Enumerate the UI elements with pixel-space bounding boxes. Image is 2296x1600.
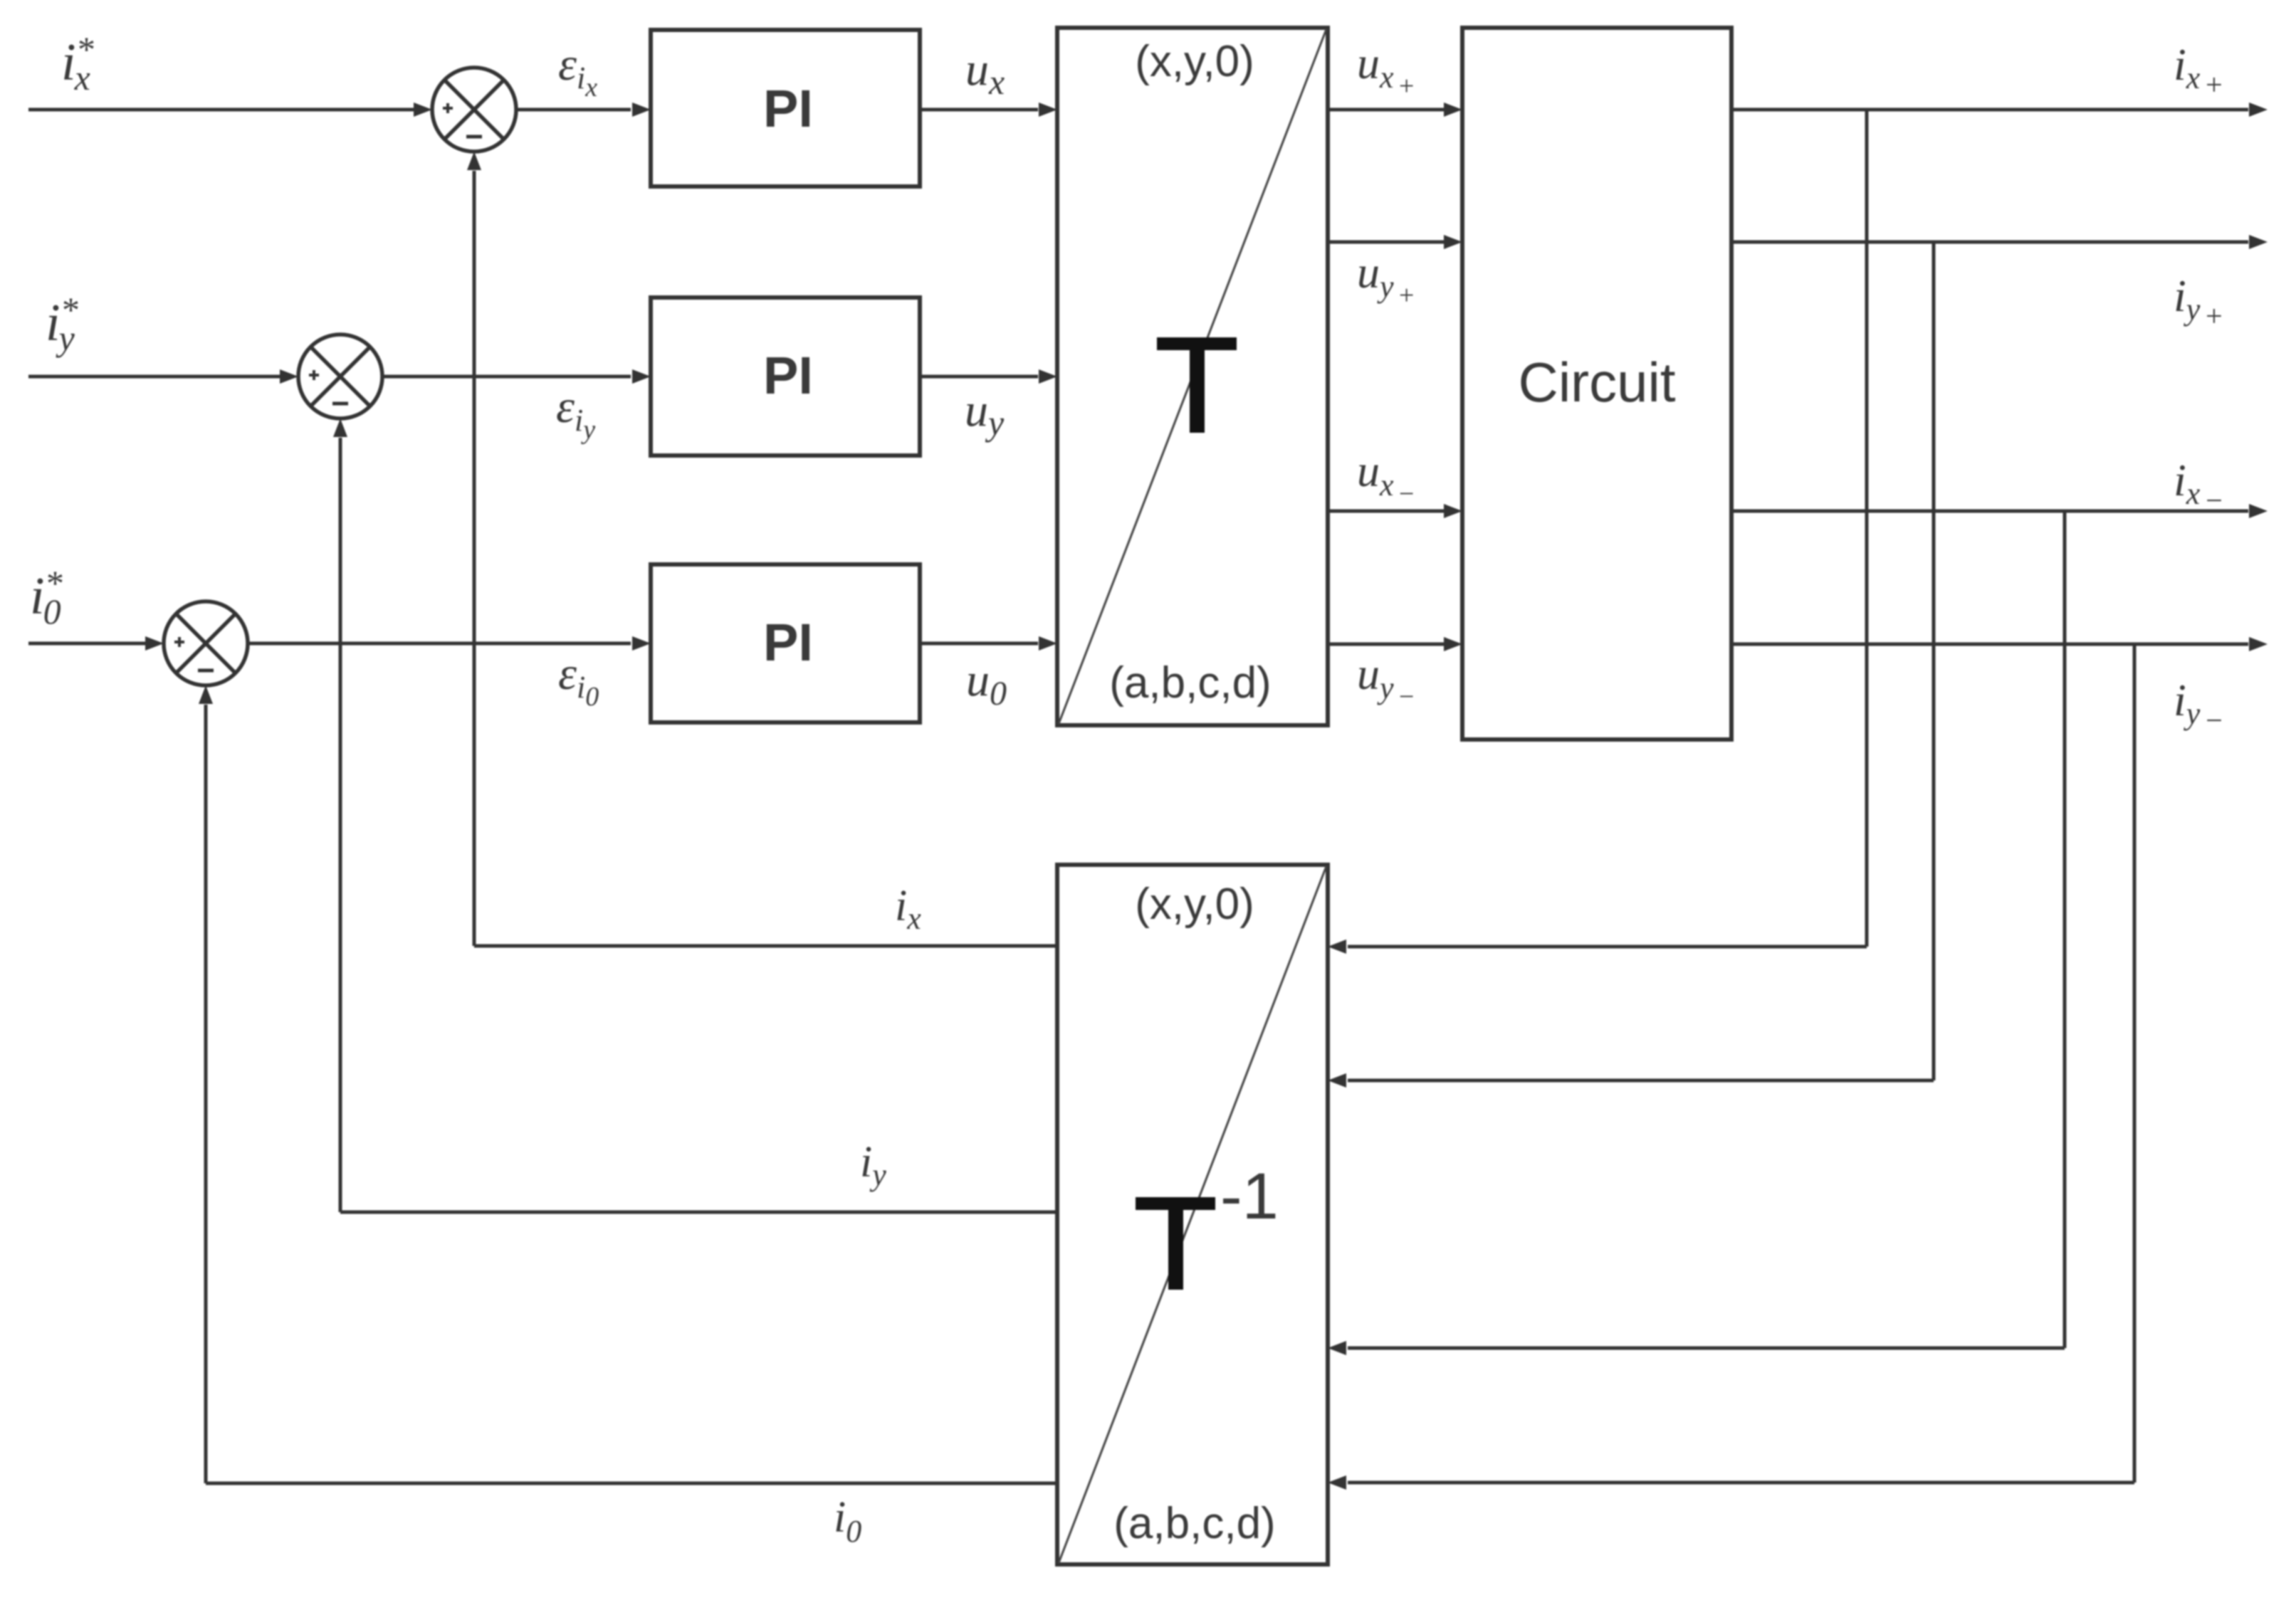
wire i0 feedback vertical to SJ3 [204, 705, 208, 1483]
svg-text:εi0: εi0 [558, 648, 599, 712]
arrowhead feedback iy- into T-inv [1328, 1475, 1346, 1490]
arrowhead output iy+ [2249, 235, 2268, 249]
wire T to Circuit (ux-) [1328, 510, 1444, 513]
wire ix feedback vertical to SJ1 [473, 171, 476, 946]
arrowhead output ix+ [2249, 102, 2268, 117]
wire Circuit output iy- [1731, 643, 2248, 646]
arrowhead feedback into SJ1 bottom [467, 152, 481, 170]
T symbol [1157, 337, 1237, 350]
wire i*x input row1 [28, 108, 416, 112]
svg-text:i*y: i*y [46, 290, 78, 358]
svg-text:εix: εix [558, 38, 597, 102]
svg-text:uy+: uy+ [1357, 247, 1415, 310]
wire feedback tap iy+ vertical [1932, 242, 1936, 1080]
wire PI1 to T (ux) [920, 108, 1038, 112]
svg-text:iy−: iy− [2174, 675, 2224, 737]
svg-text:εiy: εiy [556, 381, 595, 445]
wire T to Circuit (uy-) [1328, 643, 1444, 646]
wire i*0 input row3 [28, 642, 147, 646]
svg-text:ix: ix [895, 882, 921, 936]
arrowhead into PI1 [632, 102, 651, 117]
svg-text:(a,b,c,d): (a,b,c,d) [1109, 658, 1271, 707]
T inverse symbol [1136, 1197, 1215, 1210]
svg-text:PI: PI [763, 613, 813, 672]
svg-text:iy+: iy+ [2174, 270, 2224, 333]
svg-text:(x,y,0): (x,y,0) [1135, 880, 1254, 929]
arrowhead ux into T [1039, 102, 1057, 117]
svg-text:uy−: uy− [1357, 648, 1415, 712]
wire feedback tap ix+ vertical [1865, 110, 1869, 947]
wire SJ1 to PI1 [516, 108, 631, 112]
summing junction SJ1 [432, 68, 516, 152]
arrowhead output ix- [2249, 504, 2268, 518]
svg-text:uy: uy [965, 384, 1005, 443]
arrowhead feedback into SJ2 bottom [333, 419, 347, 437]
svg-text:ix−: ix− [2174, 455, 2224, 517]
arrowhead u0 into T [1039, 636, 1057, 651]
svg-text:ux: ux [965, 43, 1005, 102]
arrowhead feedback ix- into T-inv [1328, 1341, 1346, 1355]
block T transform [1057, 28, 1328, 725]
wire ix feedback horizontal from T-inv [474, 944, 1057, 948]
svg-text:i0: i0 [834, 1493, 861, 1549]
svg-text:PI: PI [763, 346, 813, 405]
wire i*y input row2 [28, 375, 282, 379]
wire i0 feedback horizontal from T-inv [206, 1482, 1057, 1485]
svg-text:i*0: i*0 [30, 563, 63, 631]
wire Circuit output ix- [1731, 510, 2248, 513]
arrowhead feedback iy+ into T-inv [1328, 1073, 1346, 1088]
arrowhead into PI3 [632, 636, 651, 651]
wire SJ2 to PI2 [382, 375, 631, 379]
arrowhead uy- into Circuit [1444, 637, 1462, 651]
svg-text:(x,y,0): (x,y,0) [1135, 37, 1254, 86]
wire feedback ix- horizontal into T-inv [1348, 1347, 2065, 1350]
svg-text:ix+: ix+ [2174, 39, 2224, 102]
block PI1 [651, 30, 920, 186]
arrowhead into SJ3 [145, 636, 164, 651]
block T inverse transform [1057, 865, 1328, 1564]
arrowhead ux+ into Circuit [1444, 102, 1462, 117]
arrowhead output iy- [2249, 637, 2268, 651]
block PI3 [651, 564, 920, 722]
svg-text:(a,b,c,d): (a,b,c,d) [1113, 1499, 1275, 1548]
wire Circuit output ix+ [1731, 108, 2248, 112]
wire T to Circuit (uy+) [1328, 241, 1444, 244]
wire feedback tap iy- vertical [2133, 644, 2137, 1483]
wire feedback iy+ horizontal into T-inv [1348, 1079, 1934, 1083]
svg-text:i*x: i*x [61, 29, 94, 98]
arrowhead ux- into Circuit [1444, 504, 1462, 518]
arrowhead uy into T [1039, 369, 1057, 384]
svg-text:Circuit: Circuit [1518, 351, 1675, 414]
wire feedback ix+ horizontal into T-inv [1348, 945, 1867, 949]
wire Circuit output iy+ [1731, 241, 2248, 244]
wire feedback iy- horizontal into T-inv [1348, 1481, 2134, 1485]
arrowhead into SJ1 [414, 102, 432, 117]
arrowhead into SJ2 [280, 369, 298, 384]
wire SJ3 to PI3 [248, 642, 631, 646]
summing junction SJ2 [298, 335, 382, 419]
svg-text:u0: u0 [966, 654, 1007, 712]
wire iy feedback horizontal from T-inv [340, 1211, 1057, 1214]
wire PI3 to T (u0) [920, 642, 1038, 646]
svg-text:ux−: ux− [1357, 446, 1415, 509]
arrowhead feedback ix+ into T-inv [1328, 940, 1346, 954]
arrowhead uy+ into Circuit [1444, 235, 1462, 249]
svg-text:-1: -1 [1220, 1160, 1279, 1233]
arrowhead feedback into SJ3 bottom [199, 685, 213, 704]
svg-text:ux+: ux+ [1357, 38, 1415, 101]
svg-text:PI: PI [763, 79, 813, 138]
block PI2 [651, 298, 920, 456]
arrowhead into PI2 [632, 369, 651, 384]
wire PI2 to T (uy) [920, 375, 1038, 379]
wire feedback tap ix- vertical [2063, 511, 2067, 1348]
wire iy feedback vertical to SJ2 [339, 438, 342, 1212]
svg-text:iy: iy [860, 1138, 886, 1192]
block Circuit [1462, 28, 1731, 740]
summing junction SJ3 [164, 601, 248, 685]
wire T to Circuit (ux+) [1328, 108, 1444, 112]
